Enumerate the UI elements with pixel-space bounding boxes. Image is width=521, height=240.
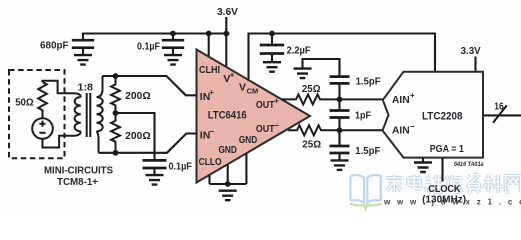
watermark char wei (426, 175, 443, 192)
wire 50ohm top to transformer (43, 81, 65, 94)
svg-text:−: − (209, 127, 214, 136)
svg-text:0.1µF: 0.1µF (137, 42, 160, 53)
resistor 25 ohm upper (282, 94, 383, 104)
wire CLHI pin drop (208, 34, 210, 58)
watermark char dian (408, 175, 421, 189)
svg-text:PGA = 1: PGA = 1 (430, 144, 465, 155)
svg-text:−: − (274, 121, 279, 130)
watermark book icon (351, 175, 381, 202)
svg-text:+: + (410, 91, 415, 100)
ground for 680pF (74, 55, 92, 65)
watermark char jia (386, 175, 402, 192)
svg-text:0.1µF: 0.1µF (169, 162, 192, 173)
svg-text:GND: GND (239, 134, 258, 146)
resistor 200 ohm lower (111, 113, 120, 153)
capacitor C 680pF (72, 40, 94, 55)
wire secondary bottom rail to IN- (99, 134, 197, 153)
svg-text:V: V (239, 81, 246, 93)
svg-text:50Ω: 50Ω (15, 96, 34, 108)
svg-text:CM: CM (247, 86, 259, 95)
ground for 2.2uF (263, 62, 281, 71)
wire center tap to 0.1uF (116, 113, 155, 159)
svg-text:−: − (410, 122, 415, 131)
node dot 2.2uF tap (269, 31, 275, 37)
watermark green swoosh (350, 204, 382, 209)
svg-text:GND: GND (219, 144, 238, 156)
watermark char xiu (446, 176, 463, 193)
svg-text:25Ω: 25Ω (302, 84, 321, 95)
wire 3.6V/V+ rail (83, 34, 230, 41)
wire V+ pin drop (225, 34, 227, 68)
watermark char zi (468, 175, 480, 193)
svg-text:MINI-CIRCUITS: MINI-CIRCUITS (44, 166, 113, 177)
svg-text:(130MHz): (130MHz) (422, 195, 466, 206)
svg-text:+: + (274, 97, 279, 106)
resistor 50 ohm (38, 82, 47, 118)
capacitor C 0.1uF (top) (162, 40, 184, 55)
svg-text:LTC6416: LTC6416 (208, 109, 247, 121)
svg-text:OUT: OUT (256, 123, 275, 135)
wire 0.1uF top stub (172, 34, 174, 41)
svg-text:CLOCK: CLOCK (428, 184, 461, 195)
wire secondary top rail to IN+ (103, 76, 197, 95)
svg-text:6416 TA01a: 6416 TA01a (454, 161, 484, 168)
svg-text:2.2µF: 2.2µF (287, 45, 311, 56)
node dot CLHI (206, 31, 212, 37)
svg-text:OUT: OUT (256, 99, 275, 111)
svg-text:1.5pF: 1.5pF (355, 146, 380, 157)
svg-text:25Ω: 25Ω (302, 140, 321, 151)
svg-text:CLHI: CLHI (199, 64, 220, 76)
ground for 1.5pF bottom (331, 160, 349, 170)
watermark group (350, 175, 521, 209)
svg-text:CLLO: CLLO (199, 156, 222, 168)
transformer core (87, 93, 91, 137)
svg-text:200Ω: 200Ω (125, 131, 151, 142)
wire CLLO pin drop (208, 175, 210, 184)
resistor 25 ohm lower (288, 125, 383, 135)
svg-text:TCM8-1+: TCM8-1+ (57, 177, 98, 188)
node dot amp gnd (225, 181, 231, 187)
svg-text:3.3V: 3.3V (461, 45, 481, 57)
ground for 0.1uF bottom (146, 175, 164, 185)
transformer secondary winding (97, 76, 103, 153)
resistor 200 ohm upper (111, 76, 120, 113)
wire 3.6V stub (225, 17, 227, 34)
svg-text:AIN: AIN (392, 125, 410, 137)
wire 3.3V stub (474, 57, 476, 72)
capacitor C 1.5pF bottom (330, 130, 350, 160)
ground for 1.5pF top (294, 69, 312, 79)
svg-text:LTC2208: LTC2208 (422, 111, 463, 123)
op-amp U1 LTC6416 triangle (197, 50, 311, 183)
wire ADC output bus (483, 114, 521, 116)
watermark char liao (484, 175, 502, 193)
wire 2.2uF stub (271, 34, 273, 45)
capacitor C 1pF (330, 99, 350, 130)
wire amp ground bus (210, 183, 247, 185)
svg-text:3.6V: 3.6V (217, 6, 238, 18)
node dot 0.1uF tap (170, 31, 176, 37)
capacitor C 2.2uF (260, 45, 284, 62)
node dot OUT+ (337, 97, 343, 103)
ADC U2 LTC2208 body (383, 72, 484, 158)
ground for 0.1uF top (164, 55, 182, 65)
transformer T1 TCM8-1+ primary winding (64, 93, 81, 136)
dashed source box MINI-CIRCUITS (9, 70, 65, 158)
wire GND pin drop 1 (227, 165, 229, 184)
capacitor C 1.5pF top (303, 59, 350, 99)
ground for ADC (414, 158, 432, 173)
node dot 200ohm mid (113, 110, 119, 116)
svg-text:AIN: AIN (392, 94, 410, 106)
node dot 200ohm top (113, 73, 119, 79)
svg-text:16: 16 (494, 102, 504, 113)
svg-text:+: + (209, 88, 214, 97)
capacitor C 0.1uF (bottom) (143, 160, 167, 175)
watermark char wang (505, 176, 521, 192)
node dot OUT- (337, 127, 343, 133)
wire source bottom to transformer (43, 136, 65, 148)
wire VCM rail (249, 34, 436, 81)
svg-text:1:8: 1:8 (78, 83, 94, 94)
svg-text:200Ω: 200Ω (125, 91, 151, 102)
svg-text:+: + (230, 71, 235, 80)
node dot 200ohm bottom (113, 150, 119, 156)
bus slash 16 bits (493, 105, 507, 122)
node dot 3.6V/V+ (223, 31, 229, 37)
AC source V1 (32, 118, 53, 139)
svg-text:1pF: 1pF (355, 111, 371, 122)
wire GND pin drop 2 (245, 154, 247, 184)
wire clock stub (441, 158, 443, 182)
svg-text:1.5pF: 1.5pF (356, 77, 381, 88)
svg-text:680pF: 680pF (40, 41, 69, 52)
ground for amp (219, 191, 237, 201)
